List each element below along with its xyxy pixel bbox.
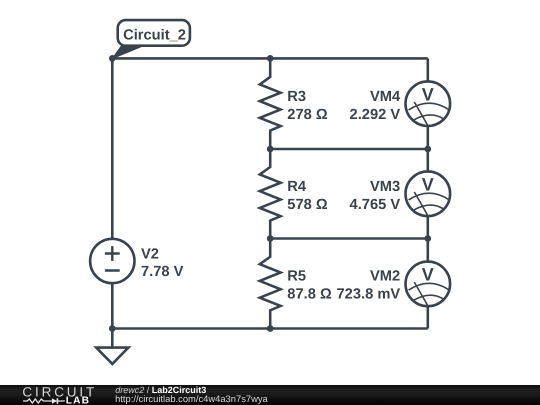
svg-text:V: V	[422, 84, 434, 104]
svg-text:V: V	[422, 174, 434, 194]
svg-text:278 Ω: 278 Ω	[287, 107, 328, 123]
svg-text:V: V	[422, 265, 434, 285]
svg-text:V2: V2	[141, 247, 159, 263]
svg-text:7.78 V: 7.78 V	[141, 264, 184, 280]
svg-text:Circuit_2: Circuit_2	[123, 28, 186, 44]
svg-text:VM3: VM3	[370, 179, 400, 195]
svg-text:VM4: VM4	[370, 89, 401, 105]
svg-text:2.292 V: 2.292 V	[350, 107, 401, 123]
svg-text:4.765 V: 4.765 V	[350, 197, 401, 213]
svg-text:LAB: LAB	[66, 396, 91, 405]
svg-text:R3: R3	[287, 89, 306, 105]
svg-text:87.8 Ω: 87.8 Ω	[287, 287, 332, 303]
svg-text:VM2: VM2	[370, 269, 400, 285]
svg-text:http://circuitlab.com/c4w4a3n7: http://circuitlab.com/c4w4a3n7s7wya	[115, 393, 268, 404]
svg-text:R4: R4	[287, 179, 307, 195]
svg-text:578 Ω: 578 Ω	[287, 197, 328, 213]
svg-text:723.8 mV: 723.8 mV	[336, 287, 400, 303]
svg-text:R5: R5	[287, 269, 306, 285]
